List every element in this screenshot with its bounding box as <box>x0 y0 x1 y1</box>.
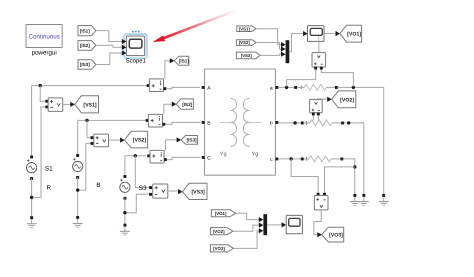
ground phase2 <box>73 216 83 227</box>
svg-text:C: C <box>207 156 211 162</box>
node c-ground junction <box>353 165 356 168</box>
voltage measurement VM2 <box>91 134 109 147</box>
wire transformer b to load <box>278 122 301 124</box>
svg-text:[VO3]: [VO3] <box>213 246 225 251</box>
wire to VM3 + input <box>135 156 148 188</box>
svg-text:[IS2]: [IS2] <box>182 102 192 107</box>
wire [IS1] to Scope1 <box>96 31 122 42</box>
svg-text:[VS3]: [VS3] <box>241 53 253 58</box>
ground phase3 <box>120 224 130 235</box>
svg-text:Continuous: Continuous <box>29 33 60 40</box>
node phase1 bottom junction <box>30 196 33 199</box>
voltage measurement VM-VO3 <box>314 193 328 210</box>
scope Scope1 selection highlight <box>124 34 147 58</box>
scope top-right <box>308 26 325 42</box>
wire through scope (VO1 tap visible) <box>319 34 324 42</box>
wire mux to scope2 <box>267 222 286 227</box>
wire VM-VO1 + tap <box>287 69 316 87</box>
wire VM3 to [VS3] <box>168 189 183 194</box>
wire b to ground corner <box>344 123 364 194</box>
from tag [IS1] <box>78 26 96 36</box>
current measurement CM2 <box>146 114 166 127</box>
wire transformer c to load <box>278 158 301 160</box>
svg-text:Scope1: Scope1 <box>126 57 147 64</box>
wire VM2 - return <box>78 143 91 190</box>
from tag [VO2] bottom <box>210 228 233 235</box>
wire [IS2] to Scope1 <box>96 45 122 47</box>
ac voltage source S1 <box>27 156 54 181</box>
wire [VO2] to mux <box>233 225 259 231</box>
wire S3 to ground <box>124 198 126 225</box>
svg-text:[IS1]: [IS1] <box>80 28 90 33</box>
ac voltage source S2 <box>73 154 83 179</box>
wire [VO1] to mux <box>236 213 260 219</box>
wire phase2 source to CM2 <box>78 120 146 155</box>
ac voltage source S3 <box>120 175 147 200</box>
scope Scope1 <box>122 31 147 65</box>
node a pre-resistor junction <box>285 86 288 89</box>
mux for VS signals <box>281 40 289 63</box>
wire CM3 to [IS3] <box>166 137 182 150</box>
wire S2 to ground <box>77 177 79 217</box>
from tag [VS2] small <box>236 40 256 46</box>
wire transformer a to load <box>278 86 294 88</box>
svg-text:[VO2]: [VO2] <box>340 97 354 103</box>
svg-text:B: B <box>96 182 100 189</box>
svg-text:[VS1]: [VS1] <box>239 26 251 31</box>
wire VM-VO3 - tap <box>325 167 355 193</box>
svg-text:[IS2]: [IS2] <box>80 43 90 48</box>
goto tag [IS3] right <box>181 136 198 145</box>
wire VM-VO3 to [VO3] <box>314 210 322 237</box>
goto tag [VS2] <box>125 131 148 148</box>
wire phase3 source to CM3 <box>125 156 146 176</box>
goto tag [VS3] <box>182 183 207 199</box>
wire a to ground corner <box>338 87 384 194</box>
svg-text:a: a <box>270 86 273 92</box>
node phase3 top junction <box>134 154 137 157</box>
svg-text:[VS2]: [VS2] <box>239 40 251 45</box>
wire [VS3] to mux <box>260 54 281 55</box>
wire to VM2 + input <box>87 120 90 137</box>
svg-text:[IS3]: [IS3] <box>80 62 90 67</box>
goto tag [VO2] <box>332 91 356 108</box>
wire c to ground corner <box>343 159 355 194</box>
voltage measurement VM1 <box>45 98 62 112</box>
node phase2 bottom junction <box>76 188 79 191</box>
wire VM1 to [VS1] <box>63 102 75 107</box>
node b junction 1 <box>293 121 296 124</box>
wire VM-VO2 - stub <box>317 115 319 120</box>
load branch Rb <box>301 120 344 126</box>
wire [VS1] to mux <box>256 29 282 45</box>
svg-text:R: R <box>47 184 52 191</box>
node c junction 1 <box>289 157 292 160</box>
from tag [VS3] small <box>236 52 260 59</box>
ground load a <box>379 194 389 205</box>
node phase1 top junction <box>39 84 42 87</box>
load branch Ra <box>294 84 338 90</box>
wire VM-VO1 to [VO1] <box>319 31 340 53</box>
wire [VO3] to mux <box>234 231 260 249</box>
svg-text:[VS2]: [VS2] <box>133 138 147 144</box>
current measurement CM3 <box>147 150 167 163</box>
svg-text:[VO3]: [VO3] <box>329 233 343 239</box>
wire VM3 - return <box>125 194 149 212</box>
wire mux to scope <box>289 31 307 52</box>
mux for VO signals <box>259 214 267 235</box>
svg-text:b: b <box>270 121 273 127</box>
from tag [VS1] small <box>237 26 256 32</box>
wire VM1 - return <box>32 107 47 197</box>
scope bottom-right <box>286 215 302 233</box>
label R <box>47 184 52 191</box>
three-phase transformer T1 <box>202 69 279 175</box>
svg-text:[IS1]: [IS1] <box>179 59 189 64</box>
wire to VM1 + input <box>40 86 46 102</box>
node b junction 2 <box>347 121 350 124</box>
label B <box>96 182 100 189</box>
voltage measurement VM-VO1 <box>312 53 326 70</box>
ground phase1 <box>27 216 37 227</box>
goto tag [VO3] <box>322 227 344 242</box>
wire [IS3] to Scope1 <box>96 53 122 65</box>
red annotation arrow <box>153 10 237 43</box>
wire VM2 to [VS2] <box>109 138 125 143</box>
ground load c <box>350 194 360 205</box>
wire CM2 to transformer B <box>165 122 200 124</box>
svg-text:[VO1]: [VO1] <box>347 32 361 38</box>
wire VM-VO2 + stub <box>312 115 314 120</box>
node phase2 top junction <box>85 119 88 122</box>
from tag [IS2] <box>78 41 96 51</box>
voltage measurement VM-VO2 <box>310 99 323 115</box>
svg-text:[VO2]: [VO2] <box>213 229 225 234</box>
svg-text:[IS3]: [IS3] <box>187 138 197 143</box>
svg-text:[VO1]: [VO1] <box>215 211 227 216</box>
wire CM2 to [IS2] <box>164 102 177 115</box>
node a post-resistor junction <box>352 86 355 89</box>
node phase3 bottom junction <box>123 211 126 214</box>
ground load b <box>359 194 369 205</box>
from tag [IS3] <box>78 60 96 70</box>
svg-text:[VS1]: [VS1] <box>83 102 97 108</box>
current measurement CM1 <box>147 79 167 92</box>
wire VM-VO1 - tap <box>321 69 353 87</box>
wire [VS2] to mux <box>256 43 281 50</box>
from tag [VO1] bottom <box>211 210 235 217</box>
wire VM-VO2 to [VO2] <box>316 97 331 102</box>
svg-text:powergui: powergui <box>32 49 57 56</box>
svg-text:S1: S1 <box>45 165 53 172</box>
wire CM1 to [IS1] <box>165 58 175 79</box>
wire VM-VO3 + tap <box>291 159 318 193</box>
powergui block <box>26 25 62 57</box>
goto tag [VO1] <box>340 25 362 42</box>
scope top-right screen <box>310 28 322 35</box>
load branch Rc <box>301 156 344 162</box>
voltage measurement VM3 <box>149 184 168 198</box>
wire CM1 to transformer A <box>166 87 200 88</box>
svg-text:[VS3]: [VS3] <box>191 189 205 195</box>
goto tag [IS1] right <box>174 56 189 65</box>
wire CM3 to transformer C <box>167 157 201 159</box>
svg-text:Yg: Yg <box>220 152 227 158</box>
svg-text:S3: S3 <box>139 185 147 192</box>
wire S1 to ground <box>31 179 33 218</box>
goto tag [IS2] right <box>176 99 193 109</box>
from tag [VO3] bottom <box>210 245 233 252</box>
goto tag [VS1] <box>75 96 99 113</box>
wire phase1 source to CM1 <box>32 86 147 157</box>
svg-text:Yg: Yg <box>252 152 259 158</box>
